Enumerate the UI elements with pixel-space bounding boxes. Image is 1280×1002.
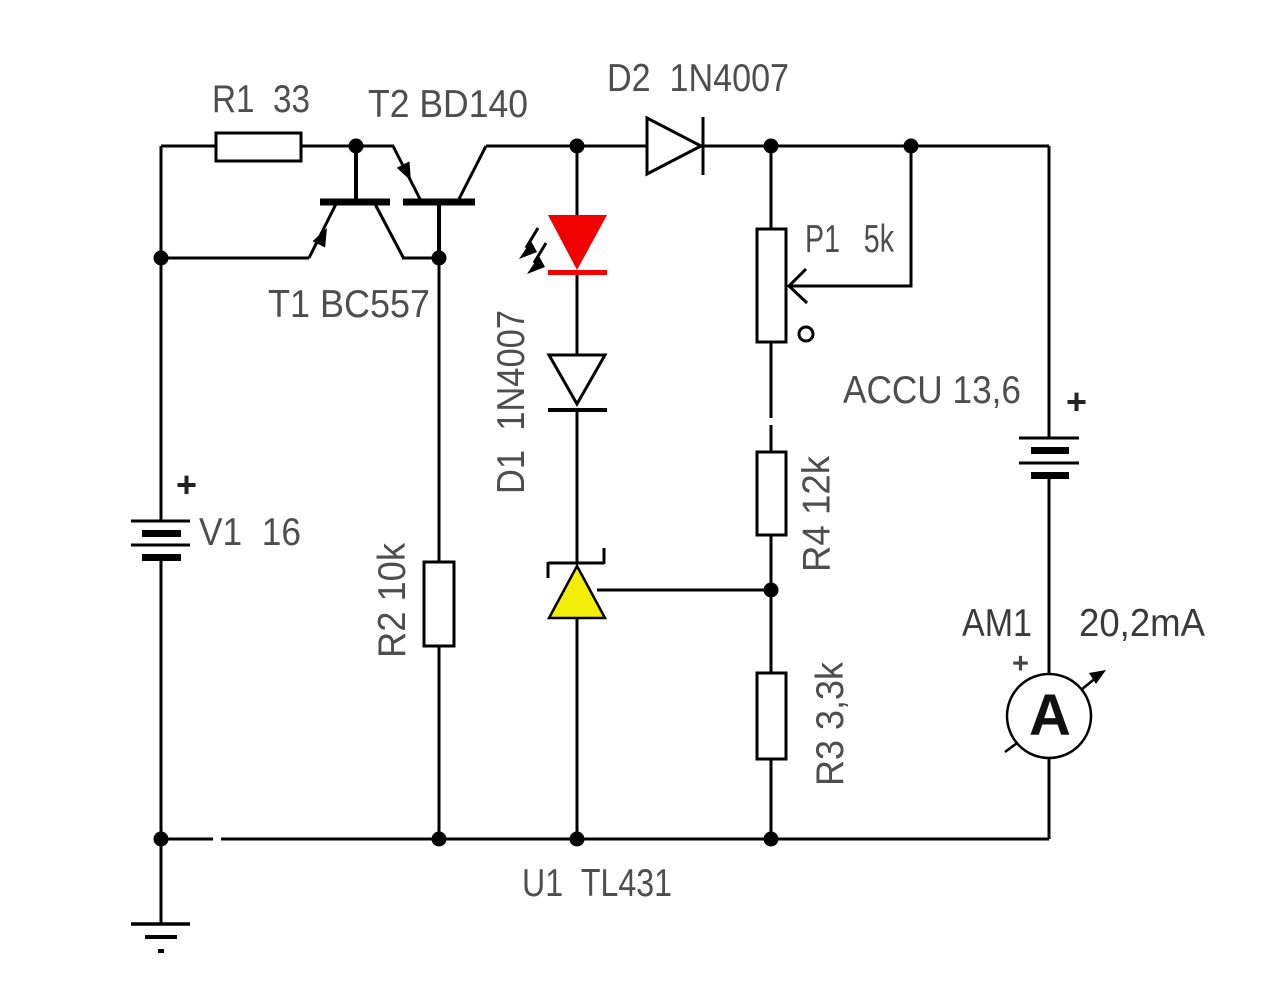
wire LED column top	[576, 146, 579, 216]
node junction bottom U1	[570, 832, 585, 847]
svg-text:20,2mA: 20,2mA	[1079, 602, 1205, 645]
P1 wiper arrow	[789, 148, 911, 303]
LED D3 red	[548, 215, 607, 275]
resistor R2	[424, 562, 454, 646]
svg-text:T2 BD140: T2 BD140	[368, 83, 528, 126]
ground	[131, 924, 190, 951]
svg-text:ACCU 13,6: ACCU 13,6	[843, 369, 1021, 412]
wire ACCU to ammeter	[1048, 479, 1051, 674]
svg-text:V1 16: V1 16	[199, 511, 301, 554]
wire R1 to T2 emitter	[301, 145, 394, 148]
node junction bottom R2	[432, 832, 447, 847]
resistor R1	[216, 133, 301, 161]
node junction D2 cathode / P1	[764, 139, 779, 154]
wire R3 to bottom rail	[770, 759, 773, 839]
node junction LED top	[570, 139, 585, 154]
P1 terminal circle	[799, 327, 813, 341]
wire P1 top	[770, 146, 773, 229]
svg-text:A: A	[1029, 683, 1071, 748]
wire T2 base to R2	[438, 258, 441, 562]
wire left column	[160, 146, 163, 521]
battery ACCU	[1019, 438, 1079, 479]
wire U1 reference to divider	[597, 589, 771, 592]
svg-text:U1 TL431: U1 TL431	[522, 862, 672, 905]
resistor R3	[757, 673, 786, 759]
node junction after R1	[349, 139, 364, 154]
wire right column bottom	[1048, 758, 1051, 839]
wire right column top	[1048, 146, 1051, 438]
svg-text:T1 BC557: T1 BC557	[268, 283, 430, 326]
LED light arrow 2	[527, 243, 546, 274]
svg-text:R4 12k: R4 12k	[796, 456, 839, 572]
svg-text:AM1: AM1	[962, 602, 1032, 645]
svg-text:R3 3,3k: R3 3,3k	[809, 662, 852, 786]
wire T1 emitter rail	[161, 257, 309, 260]
wire top rail left segment	[161, 145, 216, 148]
wire R4 to node	[770, 535, 773, 673]
node junction divider	[764, 583, 779, 598]
node junction T1 emitter rail	[154, 251, 169, 266]
transistor T2	[393, 146, 486, 258]
battery V1	[131, 521, 190, 561]
node junction bottom left	[154, 832, 169, 847]
svg-text:+: +	[1012, 648, 1029, 680]
wire T2 collector to D2	[486, 145, 647, 148]
wire left column lower	[160, 561, 163, 924]
svg-text:R2 10k: R2 10k	[371, 543, 414, 658]
op-amp U1 TL431	[548, 548, 605, 618]
svg-text:+: +	[176, 464, 197, 505]
svg-text:R1 33: R1 33	[212, 78, 310, 121]
wire LED to D1	[576, 275, 579, 355]
svg-text:+: +	[1066, 381, 1087, 422]
node junction bottom R3	[764, 832, 779, 847]
svg-text:P1 5k: P1 5k	[805, 218, 894, 261]
node junction wiper feedback	[904, 139, 919, 154]
transistor T1	[309, 146, 438, 258]
ammeter AM1	[1005, 670, 1106, 758]
wire R2 to bottom rail	[438, 646, 441, 839]
svg-text:D1 1N4007: D1 1N4007	[490, 310, 533, 494]
node junction T2 base / R2	[432, 251, 447, 266]
wire D2 to right corner	[703, 145, 1049, 148]
diode D2	[647, 117, 703, 175]
potentiometer P1	[757, 229, 786, 342]
LED light arrow 1	[519, 228, 538, 259]
svg-text:D2 1N4007: D2 1N4007	[607, 57, 789, 100]
wire D1 to U1	[576, 412, 579, 563]
wire U1 anode to bottom rail	[576, 618, 579, 839]
resistor R4	[757, 452, 786, 535]
wire bottom rail	[161, 838, 213, 841]
wire P1 to R4	[770, 342, 773, 418]
diode D1	[548, 355, 607, 410]
